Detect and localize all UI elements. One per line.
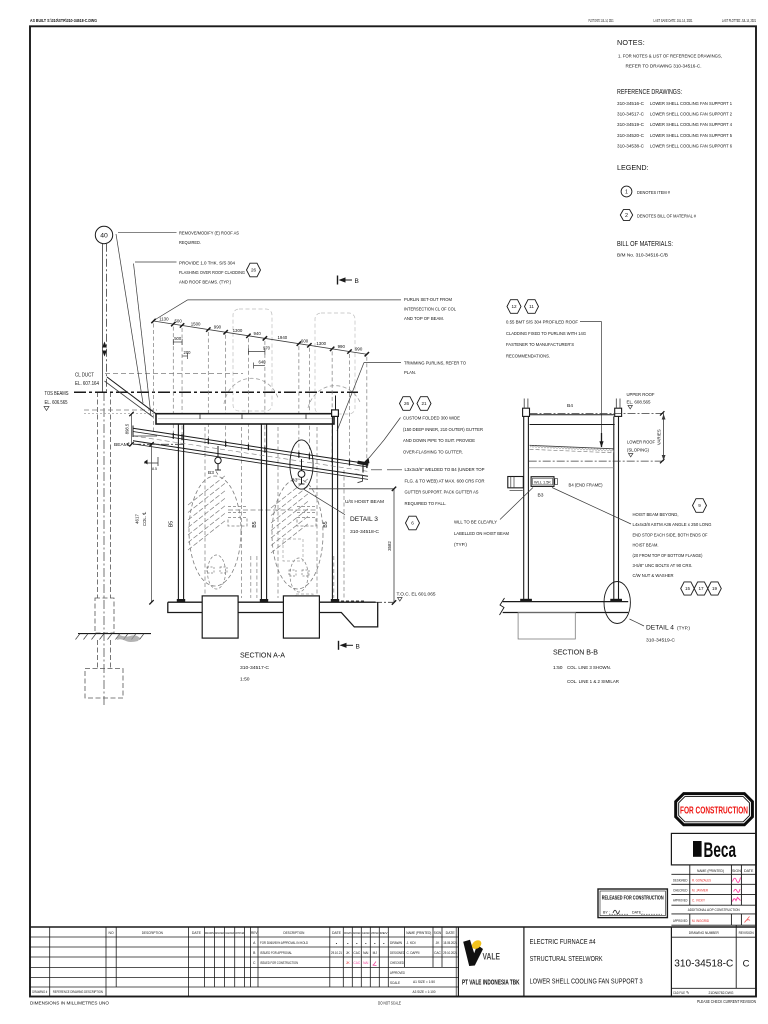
svg-text:21: 21 — [421, 401, 427, 406]
fan inner dashed oval bay 2 — [290, 558, 308, 592]
svg-text:B3: B3 — [538, 493, 544, 499]
svg-text:B5: B5 — [252, 521, 258, 527]
signatures magenta — [733, 878, 741, 883]
svg-text:END STOP EACH SIDE, BOTH ENDS: END STOP EACH SIDE, BOTH ENDS OF — [633, 532, 708, 538]
svg-text:COL. LINE 1 & 2 SIMILAR: COL. LINE 1 & 2 SIMILAR — [567, 679, 619, 685]
svg-text:REV: REV — [251, 931, 258, 935]
leader trimming purlins — [364, 362, 401, 364]
vertical dimension 3582 — [393, 489, 395, 603]
existing footing dashed — [85, 669, 123, 699]
svg-text:PROVIDE 1.0 THK. S/S 304: PROVIDE 1.0 THK. S/S 304 — [179, 261, 235, 267]
fan scroll dashed arc left — [224, 378, 278, 404]
CL duct dash-dot level line — [74, 391, 358, 393]
detail 3 balloon ellipse — [290, 440, 313, 489]
svg-text:DENOTES ITEM #: DENOTES ITEM # — [637, 190, 670, 196]
slab break line left — [500, 598, 505, 615]
svg-text:REFERENCE DRAWINGS:: REFERENCE DRAWINGS: — [617, 87, 682, 96]
svg-text:PLAN.: PLAN. — [404, 370, 416, 376]
svg-text:FOR CONSTRUCTION: FOR CONSTRUCTION — [680, 805, 748, 817]
svg-text:SECTION B-B: SECTION B-B — [553, 648, 598, 657]
released for construction stamp — [598, 889, 667, 918]
B-B column base plates — [520, 599, 532, 602]
svg-text:WLL TO BE CLEARLY: WLL TO BE CLEARLY — [454, 520, 498, 526]
svg-text:940: 940 — [253, 331, 261, 336]
leader WLL left — [500, 488, 533, 520]
purlin dimension string line with ticks — [154, 321, 367, 354]
svg-text:L4x4x3/8 ASTM A36 ANGLE x 250: L4x4x3/8 ASTM A36 ANGLE x 250 LONG — [633, 522, 712, 528]
svg-text:PLOT DATE: JUL 14, 2021: PLOT DATE: JUL 14, 2021 — [589, 18, 614, 23]
svg-text:0.55 BMT S/S 304 PROFILED ROOF: 0.55 BMT S/S 304 PROFILED ROOF — [506, 320, 578, 326]
detail 4 leader — [630, 619, 645, 626]
svg-text:HOIST BEAM BEYOND,: HOIST BEAM BEYOND, — [633, 512, 679, 518]
svg-text:NAI: NAI — [363, 951, 368, 955]
svg-text:B5: B5 — [323, 521, 329, 527]
column B5 number 3 — [331, 416, 333, 600]
svg-text:B4: B4 — [567, 403, 573, 409]
motor mount dashed rects bay 1 — [207, 567, 214, 573]
hanger rod stub above beam right end — [335, 396, 337, 411]
svg-text:600: 600 — [301, 338, 309, 343]
fan duct dashed vertical near column 2 — [250, 556, 252, 598]
stiffener dashed ladder bay 1 — [228, 506, 247, 508]
svg-text:CAC: CAC — [434, 951, 441, 955]
leader roof cladding — [580, 321, 602, 323]
svg-text:1130: 1130 — [159, 316, 169, 321]
svg-text:R. GONZALES: R. GONZALES — [692, 878, 711, 882]
svg-text:FLASHING OVER ROOF CLADDING: FLASHING OVER ROOF CLADDING — [179, 270, 245, 276]
svg-text:VALE: VALE — [483, 952, 501, 963]
purlin ticks on sloping roof — [172, 433, 174, 439]
svg-text:310-34519-C: 310-34519-C — [617, 122, 645, 128]
svg-text:990: 990 — [338, 344, 346, 349]
stiffener dashed ladder bay 2 — [297, 506, 316, 508]
TOS level marker triangle — [44, 407, 49, 411]
leader remove/modify — [118, 231, 177, 233]
svg-text:DRAWN: DRAWN — [344, 931, 352, 935]
section marker B top — [337, 276, 339, 285]
svg-text:(TYP.): (TYP.) — [454, 542, 467, 548]
concrete slab section A-A — [168, 602, 378, 627]
svg-text:C. DAPRI: C. DAPRI — [407, 951, 420, 955]
svg-text:310-34520-C: 310-34520-C — [617, 133, 645, 139]
svg-text:REMOVE/MODIFY (E) ROOF AS: REMOVE/MODIFY (E) ROOF AS — [179, 231, 240, 237]
roof cladding sloping strip — [530, 445, 614, 449]
fan housing dashed outline upper left — [233, 309, 272, 411]
svg-text:DATE: DATE — [192, 931, 202, 935]
svg-text:DESIGNED: DESIGNED — [215, 931, 224, 935]
svg-text:26: 26 — [251, 268, 257, 273]
svg-text:ISSUED FOR CONSTRUCTION: ISSUED FOR CONSTRUCTION — [260, 961, 298, 965]
louvre hatch bay 2 — [271, 478, 309, 508]
svg-text:LABELLED ON HOIST BEAM: LABELLED ON HOIST BEAM — [454, 531, 509, 537]
svg-text:NAI: NAI — [363, 961, 368, 965]
sub-dimension 500 — [173, 341, 182, 343]
svg-text:✎: ✎ — [686, 990, 689, 995]
svg-text:WLL 1.5K: WLL 1.5K — [534, 480, 552, 484]
svg-text:B4 (END FRAME): B4 (END FRAME) — [569, 483, 603, 489]
svg-text:FASTENER TO MANUFACTURER’S: FASTENER TO MANUFACTURER’S — [506, 342, 575, 348]
leader provide flashing — [135, 261, 177, 263]
column B5 number 2 — [260, 424, 262, 600]
fan scroll dashed arc right — [308, 386, 360, 408]
svg-text:LOWER SHELL COOLING FAN SUPPOR: LOWER SHELL COOLING FAN SUPPORT 5 — [650, 133, 732, 139]
U/S hoist beam level line — [309, 488, 394, 490]
bom hexagons 15 17 19 — [681, 582, 695, 595]
svg-text:APPROVED: APPROVED — [371, 931, 379, 935]
bottom flange line B4 — [529, 467, 614, 469]
svg-text:EL. 608.565: EL. 608.565 — [627, 400, 651, 406]
svg-text:AND ROOF BEAMS. (TYP.): AND ROOF BEAMS. (TYP.) — [179, 280, 231, 286]
svg-text:LOWER SHELL COOLING FAN SUPPOR: LOWER SHELL COOLING FAN SUPPORT 3 — [530, 977, 643, 986]
svg-text:DENOTES BILL OF MATERIAL #: DENOTES BILL OF MATERIAL # — [637, 214, 696, 220]
svg-text:310-34519-C: 310-34519-C — [646, 638, 676, 644]
svg-text:CLADDING FIXED TO PURLINS WITH: CLADDING FIXED TO PURLINS WITH 14G — [506, 331, 586, 337]
TOS beams dashed level line — [84, 409, 157, 411]
grid line flow arrows — [102, 342, 107, 348]
svg-text:4617: 4617 — [135, 514, 140, 524]
svg-text:(150 DEEP INNER, 210 OUTER) GU: (150 DEEP INNER, 210 OUTER) GUTTER — [403, 427, 483, 433]
svg-text:REVISION: REVISION — [739, 931, 754, 935]
svg-text:EL. 607.164: EL. 607.164 — [75, 381, 99, 387]
svg-text:VARIES: VARIES — [656, 429, 661, 445]
section marker B bottom — [338, 641, 340, 650]
fan shaft dashed centerline — [228, 509, 316, 511]
svg-text:C. VICKY: C. VICKY — [692, 899, 705, 903]
svg-text:TOS BEAMS: TOS BEAMS — [45, 391, 70, 397]
svg-text:29.10.21: 29.10.21 — [331, 951, 342, 955]
varies dimension — [663, 413, 665, 461]
svg-text:B5: B5 — [169, 521, 175, 527]
svg-text:LEGEND:: LEGEND: — [617, 163, 649, 172]
svg-text:A3 SIZE = 1:100: A3 SIZE = 1:100 — [413, 990, 436, 994]
column base plate — [177, 599, 185, 602]
title block top edge — [30, 926, 756, 928]
svg-text:REQUIRED.: REQUIRED. — [179, 240, 201, 246]
svg-text:310-34518-C: 310-34518-C — [674, 958, 733, 970]
svg-text:CL DUCT: CL DUCT — [75, 373, 94, 379]
svg-text:CHECKED: CHECKED — [362, 931, 370, 935]
svg-text:M. JAYMER: M. JAYMER — [692, 888, 708, 892]
svg-text:15: 15 — [685, 586, 691, 591]
svg-text:LOWER SHELL COOLING FAN SUPPOR: LOWER SHELL COOLING FAN SUPPORT 1 — [650, 101, 732, 107]
svg-text:DRAWN: DRAWN — [390, 941, 403, 945]
svg-text:C: C — [743, 959, 750, 970]
approval table grid — [671, 864, 756, 866]
svg-text:(20 FROM TOP OF BOTTOM FLANGE): (20 FROM TOP OF BOTTOM FLANGE) — [633, 553, 703, 559]
svg-text:310-34538-C: 310-34538-C — [617, 143, 645, 149]
svg-text:CHECKED: CHECKED — [673, 888, 688, 892]
svg-text:3-5/8" UNC BOLTS AT 90 CRS.: 3-5/8" UNC BOLTS AT 90 CRS. — [633, 563, 693, 569]
svg-text:C/W NUT & WASHER: C/W NUT & WASHER — [633, 573, 674, 579]
svg-text:AND DOWN PIPE TO SUIT. PROVIDE: AND DOWN PIPE TO SUIT. PROVIDE — [403, 438, 476, 444]
concrete slab section B-B — [503, 601, 629, 603]
svg-text:990: 990 — [355, 347, 363, 352]
existing column centreline — [103, 392, 105, 707]
svg-text:1. FOR NOTES & LIST OF REFE: 1. FOR NOTES & LIST OF REFERENCE DRAWING… — [618, 54, 722, 60]
svg-text:T.O.C. EL 601.065: T.O.C. EL 601.065 — [397, 592, 436, 597]
fan foundation pedestal 2 — [283, 596, 319, 638]
svg-text:APPROVED: APPROVED — [235, 931, 244, 935]
svg-text:1300: 1300 — [233, 328, 243, 333]
svg-text:LOWER ROOF: LOWER ROOF — [627, 440, 655, 446]
existing column dashed shaft — [97, 392, 99, 598]
hoist beam end view B-B — [508, 477, 524, 488]
hanger attachment ticks on beam — [199, 414, 201, 419]
svg-text:ELECTRIC FURNACE #4: ELECTRIC FURNACE #4 — [530, 937, 596, 946]
svg-text:RELEASED FOR CONSTRUCTION: RELEASED FOR CONSTRUCTION — [602, 896, 664, 902]
svg-text:TRIMMING PURLINS, REFER TO: TRIMMING PURLINS, REFER TO — [404, 361, 466, 367]
svg-text:8.5: 8.5 — [152, 467, 157, 471]
svg-text:GUTTER SUPPORT. PACK GUTTER AS: GUTTER SUPPORT. PACK GUTTER AS — [405, 490, 480, 496]
svg-text:APPROVED: APPROVED — [390, 971, 405, 975]
svg-text:LAST PLOTTED: JUL 14, 2021: LAST PLOTTED: JUL 14, 2021 — [722, 18, 756, 23]
svg-text:500: 500 — [174, 336, 182, 341]
svg-text:CUSTOM FOLDED 300 WIDE: CUSTOM FOLDED 300 WIDE — [403, 416, 461, 422]
svg-text:40: 40 — [100, 233, 108, 240]
legend item balloon circle 1 — [621, 186, 632, 197]
WLL plate — [531, 477, 554, 487]
dimension 898.5 — [131, 414, 133, 444]
svg-text:ADDITIONAL AOP CONSTRUCTION: ADDITIONAL AOP CONSTRUCTION — [688, 908, 740, 912]
svg-text:COL. ℄: COL. ℄ — [142, 512, 147, 526]
svg-text:APPROVED: APPROVED — [673, 919, 688, 923]
bom hexagons 12 11 — [507, 300, 521, 314]
svg-text:1:50: 1:50 — [240, 677, 250, 683]
sub-dimension 970 — [248, 351, 265, 353]
svg-text:BEAM: BEAM — [114, 442, 128, 448]
svg-text:CAC: CAC — [353, 961, 360, 965]
down pipe arrow — [364, 458, 370, 464]
svg-text:U/S HOIST BEAM: U/S HOIST BEAM — [345, 499, 384, 505]
svg-text:NAME (PRINTED): NAME (PRINTED) — [406, 931, 431, 935]
beca logo box — [671, 833, 756, 865]
svg-text:FOR 30/60/90% APPROVAL IN HOLD: FOR 30/60/90% APPROVAL IN HOLD — [260, 941, 308, 945]
svg-text:RECOMMENDATIONS.: RECOMMENDATIONS. — [506, 353, 550, 359]
svg-text:DRAWN: DRAWN — [205, 931, 214, 935]
svg-text:2: 2 — [625, 213, 628, 219]
svg-text:CHECKED: CHECKED — [225, 931, 234, 935]
leader angle welded — [371, 469, 382, 471]
bom hexagon 26 top — [247, 263, 261, 277]
svg-text:17: 17 — [698, 586, 704, 591]
duct dashed square bay1 mid — [283, 539, 303, 561]
svg-text:19: 19 — [712, 586, 718, 591]
column base plate — [260, 599, 268, 602]
fan casing tangent dashed verticals — [204, 427, 206, 598]
svg-text:SCALE: SCALE — [390, 981, 401, 985]
svg-text:B: B — [356, 643, 360, 650]
left end bracket of sloping beam — [132, 426, 134, 438]
svg-text:Beca: Beca — [704, 839, 737, 862]
revision table grid — [30, 936, 458, 938]
svg-text:STRUCTURAL STEELWORK: STRUCTURAL STEELWORK — [530, 954, 603, 963]
bom hexagons 26 21 — [400, 397, 414, 411]
svg-text:DRAWING #: DRAWING # — [32, 990, 47, 994]
svg-text:SIGN: SIGN — [434, 931, 442, 935]
svg-text:29.10.2021: 29.10.2021 — [443, 951, 457, 955]
svg-text:SIGN: SIGN — [732, 869, 741, 873]
svg-text:DESCRIPTION: DESCRIPTION — [142, 931, 163, 935]
svg-text:9: 9 — [698, 503, 701, 508]
legend BOM hexagon 2 — [620, 210, 632, 221]
svg-text:DETAIL 3: DETAIL 3 — [350, 516, 378, 523]
svg-text:1: 1 — [625, 190, 628, 196]
svg-text:DESIGNED: DESIGNED — [390, 951, 405, 955]
for construction stamp — [676, 794, 753, 825]
svg-text:LAST SAVE DATE: JUL 14, 2021: LAST SAVE DATE: JUL 14, 2021 — [654, 18, 693, 23]
ground line with hatch — [78, 633, 151, 635]
svg-text:AND TOP OF BEAM.: AND TOP OF BEAM. — [404, 316, 444, 322]
sub-dimension 200 — [182, 355, 187, 357]
svg-text:L3x3x3/8" WELDED TO B4 (UNDER: L3x3x3/8" WELDED TO B4 (UNDER TOP — [405, 467, 485, 473]
svg-text:310-34518-C: 310-34518-C — [350, 529, 380, 535]
fan inner dashed oval bay 1 — [208, 555, 226, 589]
column B-B right cap — [615, 408, 622, 416]
louvre hatch bay 1 — [188, 475, 226, 505]
svg-text:3582: 3582 — [387, 541, 392, 551]
svg-text:640: 640 — [259, 360, 267, 365]
svg-text:REFERENCE DRAWING DESCRIPTION: REFERENCE DRAWING DESCRIPTION — [53, 990, 103, 994]
svg-text:MJ: MJ — [373, 951, 378, 955]
svg-text:310-34517-C: 310-34517-C — [240, 665, 269, 671]
svg-text:B3: B3 — [208, 470, 214, 476]
svg-text:AS BUILT S:\310\STR\310-34518: AS BUILT S:\310\STR\310-34518-C.DWG — [30, 18, 97, 23]
upper roof dash-dot level — [530, 412, 664, 414]
svg-text:UPPER ROOF: UPPER ROOF — [627, 392, 655, 398]
svg-text:HOIST BEAM.: HOIST BEAM. — [633, 543, 659, 549]
column base plate — [331, 599, 339, 602]
svg-text:FLG. & TO WEB) AT MAX. 600 CRS: FLG. & TO WEB) AT MAX. 600 CRS FOR — [405, 478, 485, 484]
step dashed line — [341, 600, 366, 602]
fan foundation pedestal 1 — [202, 596, 238, 638]
svg-text:970: 970 — [263, 346, 271, 351]
svg-text:B/M No. 310-34516-C/B: B/M No. 310-34516-C/B — [617, 253, 668, 259]
T.O.C. dash-dot level line — [375, 601, 394, 603]
svg-text:21DN0782.DWG: 21DN0782.DWG — [709, 991, 734, 995]
sloping roof purlin lines — [133, 428, 368, 464]
column B-B left shaft — [523, 416, 525, 599]
svg-text:CAC: CAC — [353, 951, 360, 955]
svg-text:DESIGNED: DESIGNED — [353, 931, 361, 935]
beca logo — [693, 841, 702, 857]
svg-text:J. KDI: J. KDI — [407, 941, 416, 945]
svg-text:11: 11 — [529, 304, 534, 309]
column B-B right shaft — [613, 416, 615, 599]
svg-text:DATE: DATE — [446, 931, 456, 935]
svg-text:APPROVED: APPROVED — [673, 899, 688, 903]
svg-text:BY :: BY : — [603, 911, 610, 915]
svg-text:M. INGGRID: M. INGGRID — [692, 919, 709, 923]
fan housing dashed outline upper right — [315, 313, 355, 414]
existing column below ground dashed — [97, 640, 99, 669]
svg-text:REV: REV — [380, 931, 388, 935]
revision table vertical dividers main — [457, 927, 459, 997]
detail 4 balloon ellipse — [604, 582, 630, 624]
fan casing dashed ellipse bay 1 — [189, 476, 241, 586]
svg-text:PT VALE INDONESIA TBK: PT VALE INDONESIA TBK — [462, 980, 520, 987]
svg-text:BILL OF MATERIALS:: BILL OF MATERIALS: — [617, 239, 673, 248]
svg-text:PLEASE CHECK CURRENT REVISION: PLEASE CHECK CURRENT REVISION — [697, 999, 756, 1004]
svg-text:1:50: 1:50 — [553, 665, 563, 671]
svg-text:REQUIRED TO FALL.: REQUIRED TO FALL. — [405, 501, 447, 507]
svg-text:B: B — [355, 278, 359, 285]
existing pedestal dashed — [95, 598, 114, 633]
column B5 cap right end — [332, 410, 339, 417]
svg-text:SECTION A-A: SECTION A-A — [240, 651, 285, 660]
svg-text:898.5: 898.5 — [125, 423, 130, 434]
hanger B3 first — [215, 457, 221, 463]
svg-text:LOWER SHELL COOLING FAN SUPPOR: LOWER SHELL COOLING FAN SUPPORT 2 — [650, 112, 732, 118]
svg-text:CHECKED: CHECKED — [390, 961, 404, 965]
svg-text:310-34516-C: 310-34516-C — [617, 101, 645, 107]
svg-text:1500: 1500 — [191, 321, 201, 326]
svg-text:6: 6 — [411, 521, 414, 526]
svg-text:1940: 1940 — [277, 335, 287, 340]
lower roof dash-dot level — [529, 460, 664, 462]
leader custom folded gutter — [384, 418, 401, 441]
svg-text:COL. LINE 3 SHOWN.: COL. LINE 3 SHOWN. — [567, 665, 611, 671]
column B-B left stub above — [523, 399, 525, 409]
svg-text:(TYP.): (TYP.) — [677, 626, 691, 631]
vale logo V mark — [463, 940, 483, 966]
gutter assembly — [357, 461, 368, 466]
svg-text:NAME (PRINTED): NAME (PRINTED) — [697, 869, 724, 873]
svg-text:LOWER SHELL COOLING FAN SUPPOR: LOWER SHELL COOLING FAN SUPPORT 6 — [650, 143, 732, 149]
leader WLL right to hoist beam note — [552, 488, 631, 525]
svg-text:DRAWING NUMBER: DRAWING NUMBER — [689, 931, 719, 935]
svg-text:15.05.2021: 15.05.2021 — [443, 941, 457, 945]
beam centreline dash-dot — [133, 443, 184, 445]
cladding zigzag texture — [530, 446, 614, 452]
svg-text:NOTES:: NOTES: — [617, 38, 645, 47]
svg-text:DESCRIPTION: DESCRIPTION — [283, 931, 304, 935]
beam B4 elevation — [156, 414, 334, 424]
eave flashing lines — [107, 377, 156, 414]
svg-text:DESIGNED: DESIGNED — [673, 878, 688, 882]
motor mount dashed rects bay 2 — [289, 570, 296, 576]
svg-text:990: 990 — [214, 325, 222, 330]
svg-text:500: 500 — [174, 319, 182, 324]
svg-text:310-34517-C: 310-34517-C — [617, 112, 645, 118]
grid line 40 centreline — [102, 244, 104, 392]
bom hexagon 9 — [693, 499, 707, 513]
svg-text:DATE: DATE — [332, 931, 342, 935]
fan duct dashed vertical near column 3 — [333, 556, 335, 598]
svg-text:OVER-FLASHING TO GUTTER.: OVER-FLASHING TO GUTTER. — [403, 449, 463, 455]
detail 3 leader — [303, 489, 345, 515]
purlin projection dashed lines — [153, 324, 155, 432]
slope datum arrow symbol — [144, 462, 158, 464]
beam B4 top chord B-B — [530, 414, 615, 416]
duct top dashed edge — [105, 373, 243, 375]
svg-text:12: 12 — [511, 304, 517, 309]
column B-B right stub above — [615, 399, 617, 409]
svg-text:DIMENSIONS IN MILLIMETRES UNO: DIMENSIONS IN MILLIMETRES UNO — [30, 1001, 110, 1006]
grid bubble 40 — [95, 226, 112, 243]
WLL plate pin — [555, 479, 558, 485]
bom hexagon 6 — [406, 516, 420, 530]
drawing number block grid — [671, 924, 756, 926]
fan casing dashed ellipse bay 2 — [272, 479, 323, 589]
svg-text:DETAIL 4: DETAIL 4 — [646, 625, 674, 632]
svg-text:INTERSECTION CL OF COL: INTERSECTION CL OF COL — [404, 307, 456, 313]
column B-B left cap — [523, 408, 530, 416]
svg-text:PURLIN SET-OUT FROM: PURLIN SET-OUT FROM — [404, 297, 452, 303]
leader purlin set-out — [188, 299, 402, 301]
svg-text:A1 SIZE = 1:50: A1 SIZE = 1:50 — [413, 980, 435, 984]
svg-text:200: 200 — [184, 350, 192, 355]
hanger B3 second — [298, 471, 305, 478]
